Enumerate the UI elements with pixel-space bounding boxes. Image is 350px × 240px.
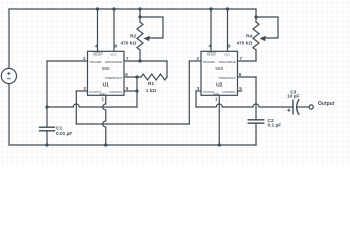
wire U2 pin5 control stub	[238, 90, 242, 92]
svg-text:U1: U1	[103, 82, 110, 88]
wire U2 pin4 to rail	[210, 9, 212, 51]
wire U1 pin8 to rail	[113, 9, 115, 51]
node dot rail R2	[138, 7, 141, 10]
svg-text:555: 555	[215, 66, 223, 72]
IC U1 555 timer box outline	[88, 51, 125, 95]
node dot R4 loop tap	[254, 15, 257, 18]
potentiometer R2 wiper arrow	[143, 36, 149, 41]
wire U1 pin2 trigger	[47, 60, 88, 62]
node dot R2 loop tap	[138, 15, 141, 18]
capacitor C2 plates	[248, 120, 264, 123]
potentiometer R4 wiper arrow	[259, 36, 265, 41]
wire U2 pin3 output stub	[196, 90, 201, 92]
wire C1 bottom to rail	[46, 131, 48, 145]
svg-text:GND: GND	[213, 92, 219, 96]
label source plus	[7, 72, 10, 75]
wire U1 pin6 threshold	[124, 76, 141, 78]
wire bottom ground rail	[9, 144, 256, 146]
wire U1 output to U2 trigger run	[76, 123, 189, 125]
svg-text:470 kΩ: 470 kΩ	[236, 41, 252, 47]
resistor R4 zigzag	[253, 22, 259, 50]
capacitor C3 plate curved	[297, 100, 299, 114]
node dot U1 pin6 R1 junction	[135, 75, 138, 78]
node dot C1 on ground rail	[45, 143, 48, 146]
svg-text:10 µF: 10 µF	[287, 94, 299, 100]
voltage source V1 circle	[1, 68, 16, 83]
capacitor C3 plate straight	[292, 100, 294, 114]
svg-text:TRIGGER: TRIGGER	[89, 60, 102, 64]
wire U1 pin5 control stub	[124, 90, 137, 92]
wire left supply bottom	[8, 84, 10, 145]
svg-text:CONTROL: CONTROL	[109, 90, 122, 94]
svg-text:555: 555	[102, 66, 110, 72]
svg-text:DISCHARGE: DISCHARGE	[105, 60, 122, 64]
label C3 plus	[287, 109, 290, 112]
node dot rail U2 pin8	[226, 7, 229, 10]
wire R2 bottom lead	[139, 50, 141, 61]
svg-text:0.01 µF: 0.01 µF	[56, 131, 72, 137]
svg-text:RESET: RESET	[207, 53, 217, 57]
wire U2 gnd	[218, 95, 220, 145]
IC U2 555 timer box outline	[201, 51, 238, 95]
svg-text:0.1 µF: 0.1 µF	[268, 123, 282, 129]
wire U2 pin6 threshold	[238, 76, 257, 78]
svg-text:C1: C1	[56, 126, 62, 132]
svg-text:VCC: VCC	[110, 53, 117, 57]
node dot U1 gnd on rail	[104, 143, 107, 146]
wire R4 wiper loop	[256, 17, 278, 38]
node dot trigger C1 junction	[45, 105, 48, 108]
wire U1 pin4 to rail	[97, 9, 99, 51]
wire threshold down to C2	[255, 77, 257, 120]
wire U1 pin3 output stub	[76, 90, 87, 92]
svg-text:R2: R2	[130, 34, 136, 40]
wire R2 wiper loop	[140, 17, 163, 38]
wire U1 pin7 discharge	[124, 60, 167, 62]
wire R2 top lead from rail	[139, 9, 141, 22]
svg-text:GND: GND	[99, 92, 105, 96]
wire U2 output down	[195, 91, 197, 107]
node dot rail U2 pin4	[209, 7, 212, 10]
svg-text:CONTROL: CONTROL	[223, 90, 236, 94]
wire U2 pin2 trigger	[189, 60, 201, 62]
node dot U2 gnd on rail	[218, 143, 221, 146]
svg-text:VCC: VCC	[224, 53, 231, 57]
wire C2 bottom to rail	[255, 123, 257, 145]
wire U2 pin8 to rail	[227, 9, 229, 51]
wire threshold node down	[136, 77, 138, 107]
svg-text:Output: Output	[318, 101, 335, 107]
wire pin7 down to R1 right	[166, 61, 168, 77]
node dot rail U1 pin4	[96, 7, 99, 10]
wire R4 top lead from rail end	[255, 9, 257, 22]
node output terminal circle	[309, 105, 313, 109]
svg-text:1 kΩ: 1 kΩ	[146, 88, 157, 94]
svg-text:TRIGGER: TRIGGER	[203, 60, 216, 64]
svg-text:R4: R4	[246, 34, 252, 40]
wire U1 gnd with two hops	[103, 95, 106, 145]
svg-text:DISCHARGE: DISCHARGE	[219, 60, 236, 64]
resistor R1 zigzag	[141, 74, 167, 80]
node dot R2 bottom on pin7 wire	[138, 59, 141, 62]
wire U2 output run to C3 with hops	[196, 104, 293, 107]
wire top VCC rail	[9, 8, 256, 10]
wire U1 output down	[75, 91, 77, 124]
capacitor C1 plates	[40, 127, 55, 131]
resistor R2 zigzag	[137, 22, 143, 50]
wire up to U2 trigger level	[188, 61, 190, 124]
wire left supply top	[8, 9, 10, 68]
label source minus	[7, 78, 10, 80]
svg-text:THRESHOLD: THRESHOLD	[218, 76, 236, 80]
wire C3 to output terminal	[297, 106, 309, 108]
svg-text:RESET: RESET	[93, 53, 103, 57]
wire U2 pin7 discharge	[238, 60, 257, 62]
svg-text:470 kΩ: 470 kΩ	[120, 41, 136, 47]
wire trigger-threshold tie with hop	[47, 104, 137, 107]
wire trigger node down to C1	[46, 61, 48, 127]
node dot rail U1 pin8	[112, 7, 115, 10]
svg-text:THRESHOLD: THRESHOLD	[105, 76, 123, 80]
node dot U1 pin5 junction	[135, 89, 138, 92]
svg-text:U2: U2	[216, 82, 223, 88]
svg-text:R1: R1	[148, 81, 154, 87]
wire R4 bottom lead	[255, 50, 257, 61]
